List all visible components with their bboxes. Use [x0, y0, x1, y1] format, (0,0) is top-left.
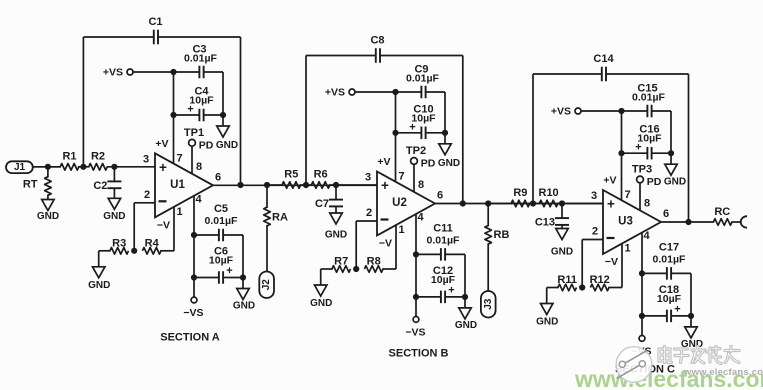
capacitor C10 — [392, 103, 448, 139]
wire +VS rail — [133, 69, 199, 75]
-VS terminal — [183, 297, 203, 319]
svg-text:0.01µF: 0.01µF — [184, 53, 217, 65]
wire pin1 — [173, 207, 175, 251]
+VS terminal — [551, 105, 581, 117]
svg-text:R2: R2 — [91, 150, 105, 162]
ground C7-gnd — [325, 213, 347, 241]
test point TP2 — [406, 145, 436, 192]
svg-text:RC: RC — [714, 206, 730, 218]
wire feedback-right — [462, 56, 464, 204]
resistor R8 — [364, 256, 396, 273]
svg-text:+: + — [607, 197, 615, 212]
-VS terminal — [631, 336, 651, 358]
svg-text:RA: RA — [272, 212, 288, 224]
capacitor C13 — [535, 204, 569, 229]
resistor R7 — [321, 256, 360, 273]
wire pin7 +V — [155, 72, 173, 164]
svg-text:U2: U2 — [392, 197, 407, 209]
wire c3-right — [204, 72, 223, 115]
wire feedback-right — [688, 74, 690, 222]
resistor RC — [713, 206, 741, 225]
svg-text:R3: R3 — [112, 237, 126, 249]
svg-text:GND: GND — [455, 320, 477, 331]
svg-text:R5: R5 — [284, 169, 298, 181]
svg-text:TP1: TP1 — [184, 127, 204, 139]
ground C13-gnd — [551, 229, 573, 258]
svg-text:+: + — [674, 303, 680, 315]
ground fb-gnd — [310, 269, 332, 309]
svg-text:R7: R7 — [334, 256, 348, 268]
+VS terminal — [103, 66, 133, 78]
capacitor C2 — [93, 167, 121, 199]
svg-text:RT: RT — [23, 178, 38, 190]
svg-text:−VS: −VS — [183, 307, 203, 319]
node junction1 — [78, 164, 90, 170]
wire pin7 +V — [377, 92, 395, 182]
ground rail-gnd — [664, 153, 686, 187]
capacitor C12 — [416, 265, 465, 303]
svg-text:+: + — [187, 104, 193, 116]
svg-text:J2: J2 — [261, 279, 272, 291]
svg-text:2: 2 — [592, 226, 598, 238]
svg-text:0.01µF: 0.01µF — [427, 234, 460, 246]
svg-text:C8: C8 — [370, 35, 384, 47]
svg-text:RB: RB — [494, 229, 510, 241]
node junction1 — [529, 200, 540, 206]
op-amp U1 — [143, 152, 221, 231]
watermark — [616, 347, 652, 383]
svg-text:+: + — [381, 178, 389, 193]
svg-text:R10: R10 — [539, 187, 559, 199]
connector J2 — [259, 272, 274, 299]
svg-text:C17: C17 — [659, 241, 679, 253]
wire +VS rail — [581, 108, 647, 114]
wire J1-out — [33, 164, 61, 170]
ground RT-gnd — [37, 200, 59, 222]
capacitor C15 — [632, 83, 665, 118]
svg-text:4: 4 — [195, 193, 202, 205]
svg-text:3: 3 — [591, 190, 597, 202]
node junction1 — [300, 182, 312, 188]
wire to pin3 — [557, 200, 603, 206]
connector J1 — [6, 161, 33, 173]
connector output jack — [741, 216, 747, 228]
svg-text:U1: U1 — [170, 179, 185, 191]
resistor RB — [485, 204, 510, 292]
wire c5-right — [240, 235, 246, 281]
section label SECTION A — [160, 332, 220, 344]
svg-text:+: + — [226, 265, 232, 277]
watermark — [659, 347, 739, 364]
svg-text:2: 2 — [366, 207, 372, 219]
svg-text:J1: J1 — [14, 162, 26, 173]
section label SECTION B — [389, 348, 449, 360]
resistor R3 — [99, 237, 138, 254]
svg-text:8: 8 — [644, 198, 650, 210]
svg-text:R6: R6 — [314, 169, 328, 181]
svg-text:R8: R8 — [367, 256, 381, 268]
svg-text:GND: GND — [664, 177, 686, 188]
svg-text:4: 4 — [417, 212, 424, 224]
-VS terminal — [405, 317, 425, 339]
capacitor C18 — [642, 284, 691, 322]
capacitor C6 — [194, 246, 243, 284]
svg-text:+VS: +VS — [103, 66, 123, 78]
resistor R10 — [539, 187, 559, 207]
node A-out junctions — [237, 182, 270, 188]
capacitor C14 — [533, 53, 689, 81]
ground rail-gnd — [438, 133, 460, 169]
svg-text:R1: R1 — [62, 150, 76, 162]
svg-text:0.01µF: 0.01µF — [406, 73, 439, 85]
capacitor C4 — [170, 86, 226, 122]
wire pin4 — [191, 196, 197, 297]
svg-text:1: 1 — [624, 243, 630, 255]
svg-text:6: 6 — [663, 208, 669, 220]
ground fb-gnd — [536, 288, 558, 328]
op-amp U3 — [591, 189, 669, 268]
svg-text:C7: C7 — [315, 198, 329, 210]
wire pin4 — [413, 214, 419, 316]
svg-text:GND: GND — [438, 158, 460, 169]
svg-text:GND: GND — [216, 140, 238, 151]
wire pin1 — [395, 225, 397, 269]
svg-text:+V: +V — [603, 175, 616, 187]
svg-text:2: 2 — [144, 189, 150, 201]
op-amp U2 — [365, 171, 443, 250]
capacitor C8 — [306, 35, 463, 63]
svg-text:+: + — [159, 160, 167, 175]
svg-text:GND: GND — [37, 211, 59, 222]
svg-text:R12: R12 — [590, 274, 610, 286]
wire pin2 — [134, 203, 155, 251]
capacitor C3 — [184, 44, 217, 79]
ground c6-gnd — [455, 297, 477, 331]
capacitor C17 — [642, 241, 691, 279]
connector J3 — [481, 291, 496, 318]
svg-text:+: + — [635, 142, 641, 154]
svg-text:+: + — [448, 284, 454, 296]
ground C2-gnd — [103, 198, 125, 222]
wire feedback-left — [82, 37, 84, 167]
svg-text:0.01µF: 0.01µF — [653, 253, 686, 265]
svg-text:C14: C14 — [593, 53, 614, 65]
ground fb-gnd — [88, 251, 110, 291]
svg-text:TP3: TP3 — [632, 164, 652, 176]
wire c5-right — [688, 273, 694, 319]
svg-text:8: 8 — [418, 179, 424, 191]
svg-text:8: 8 — [196, 161, 202, 173]
svg-text:−VS: −VS — [405, 326, 425, 338]
svg-text:GND: GND — [233, 301, 255, 312]
ground c6-gnd — [233, 278, 255, 312]
svg-text:−V: −V — [605, 256, 618, 268]
capacitor C9 — [406, 64, 439, 99]
svg-text:C2: C2 — [93, 180, 107, 192]
svg-text:−V: −V — [379, 238, 392, 250]
resistor R5 — [267, 169, 301, 189]
svg-text:J3: J3 — [483, 298, 494, 310]
capacitor C16 — [618, 124, 674, 160]
svg-text:PD: PD — [421, 158, 436, 170]
wire pin2 — [582, 240, 603, 288]
node C-out junction — [685, 219, 691, 225]
svg-text:SECTION B: SECTION B — [389, 348, 449, 360]
svg-text:C11: C11 — [433, 222, 453, 234]
resistor R11 — [547, 274, 586, 291]
resistor RA — [264, 185, 288, 272]
wire c5-right — [462, 254, 468, 300]
node B-out junctions — [460, 200, 492, 206]
svg-text:www.elecfans.com: www.elecfans.com — [683, 367, 763, 378]
resistor R2 — [89, 150, 108, 170]
wire c3-right — [652, 111, 671, 153]
wire output pin6 — [213, 184, 377, 186]
test point TP3 — [632, 164, 662, 211]
svg-text:C1: C1 — [148, 16, 162, 28]
wire pin7 +V — [603, 111, 621, 200]
svg-text:3: 3 — [143, 153, 149, 165]
svg-text:0.01µF: 0.01µF — [632, 92, 665, 104]
svg-text:GND: GND — [310, 298, 332, 309]
wire feedback-left — [305, 56, 307, 186]
capacitor C1 — [83, 16, 240, 44]
wire pin4 — [639, 233, 645, 336]
svg-text:GND: GND — [325, 230, 347, 241]
svg-text:R9: R9 — [513, 187, 527, 199]
svg-text:+VS: +VS — [325, 86, 345, 98]
svg-text:GND: GND — [103, 211, 125, 222]
svg-text:6: 6 — [437, 190, 443, 202]
resistor R6 — [311, 169, 330, 189]
svg-text:+V: +V — [155, 138, 168, 150]
resistor R9 — [488, 187, 529, 207]
ground c6-gnd — [681, 316, 703, 350]
svg-text:7: 7 — [398, 171, 404, 183]
svg-text:−V: −V — [157, 219, 170, 231]
resistor R1 — [33, 150, 79, 170]
svg-text:R11: R11 — [557, 274, 577, 286]
svg-text:GND: GND — [88, 280, 110, 291]
resistor RT — [23, 167, 51, 200]
+VS terminal — [325, 86, 355, 98]
capacitor C7 — [315, 185, 343, 213]
svg-text:7: 7 — [176, 152, 182, 164]
svg-text:7: 7 — [624, 189, 630, 201]
svg-text:PD: PD — [199, 139, 214, 151]
svg-text:1: 1 — [398, 224, 404, 236]
ground rail-gnd — [216, 115, 238, 151]
wire c3-right — [426, 92, 445, 133]
wire output pin6 — [435, 203, 603, 205]
svg-text:+VS: +VS — [551, 105, 571, 117]
svg-text:+V: +V — [377, 156, 390, 168]
wire feedback-left — [532, 74, 534, 204]
svg-text:C13: C13 — [535, 217, 555, 229]
resistor R4 — [142, 237, 174, 254]
wire pin2 — [356, 221, 377, 269]
svg-text:GND: GND — [551, 247, 573, 258]
svg-text:C5: C5 — [214, 203, 228, 215]
svg-text:6: 6 — [215, 171, 221, 183]
capacitor C5 — [194, 203, 243, 241]
wire feedback-right — [240, 37, 242, 185]
resistor R12 — [590, 274, 622, 291]
svg-text:PD: PD — [647, 176, 662, 188]
svg-text:3: 3 — [365, 172, 371, 184]
test point TP1 — [184, 127, 214, 174]
svg-text:0.01µF: 0.01µF — [205, 215, 238, 227]
svg-text:4: 4 — [643, 230, 650, 242]
svg-text:+: + — [409, 121, 415, 133]
svg-text:U3: U3 — [618, 216, 633, 228]
wire pin1 — [621, 244, 623, 288]
capacitor C11 — [416, 222, 465, 260]
svg-text:R4: R4 — [145, 237, 160, 249]
svg-text:GND: GND — [536, 317, 558, 328]
wire output pin6 — [661, 221, 714, 223]
section label SECTION C — [615, 364, 675, 376]
svg-text:SECTION A: SECTION A — [160, 332, 220, 344]
wire to pin3 — [107, 164, 156, 170]
wire to pin3 — [329, 182, 377, 188]
svg-text:1: 1 — [176, 206, 182, 218]
wire +VS rail — [355, 89, 421, 95]
svg-text:TP2: TP2 — [406, 145, 426, 157]
